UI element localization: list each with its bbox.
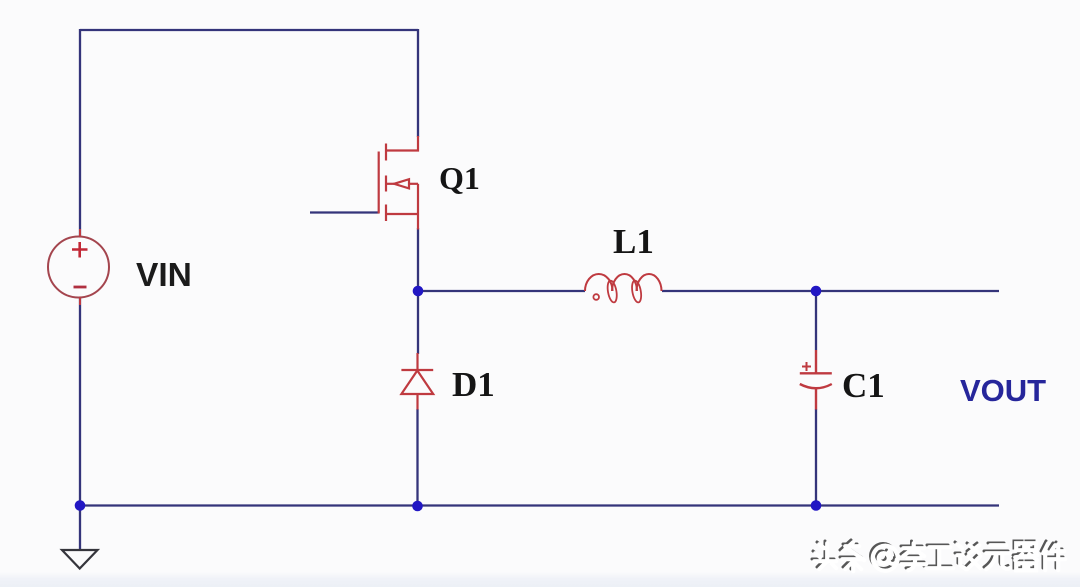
- svg-text:L1: L1: [613, 222, 654, 261]
- svg-text:D1: D1: [452, 365, 495, 404]
- voltage source VIN: [48, 229, 109, 305]
- diode D1: [401, 353, 433, 410]
- wire: Q1 source to switch node: [417, 228, 419, 291]
- svg-text:VIN: VIN: [136, 257, 192, 294]
- svg-text:VOUT: VOUT: [960, 373, 1046, 408]
- wire: Q1 drain vertical from top rail: [417, 29, 419, 137]
- svg-text:C1: C1: [842, 366, 885, 405]
- svg-text:Q1: Q1: [439, 160, 480, 196]
- wire: switch node to L1 left: [418, 290, 585, 292]
- wire: top horizontal VIN to Q1 drain: [80, 29, 418, 31]
- node: C1 top junction dot: [811, 286, 822, 297]
- wire: bottom horizontal rail: [80, 504, 999, 506]
- node: D1 bottom junction dot: [412, 501, 423, 512]
- wire: C1 bottom lead: [815, 409, 817, 506]
- capacitor C1: [800, 350, 832, 410]
- node: VIN- / ground junction dot: [75, 500, 86, 511]
- wire: L1 right to VOUT end: [662, 290, 999, 292]
- node: C1 bottom junction dot: [811, 500, 822, 511]
- wire: D1 bottom to bottom rail: [416, 409, 418, 506]
- watermark 头条@李工谈元器件: [812, 540, 1065, 571]
- inductor L1: [585, 274, 662, 303]
- wire: C1 top lead: [815, 291, 817, 350]
- wire: left vertical top (to VIN+): [79, 29, 81, 237]
- wire: switch node down to D1: [417, 291, 419, 354]
- ground: [62, 550, 98, 569]
- node: switch node junction dot: [413, 286, 424, 297]
- transistor Q1 (PMOS): [379, 136, 418, 230]
- wire: left vertical bottom (VIN- to ground node): [79, 298, 81, 549]
- wire: Q1 gate stub: [310, 211, 379, 213]
